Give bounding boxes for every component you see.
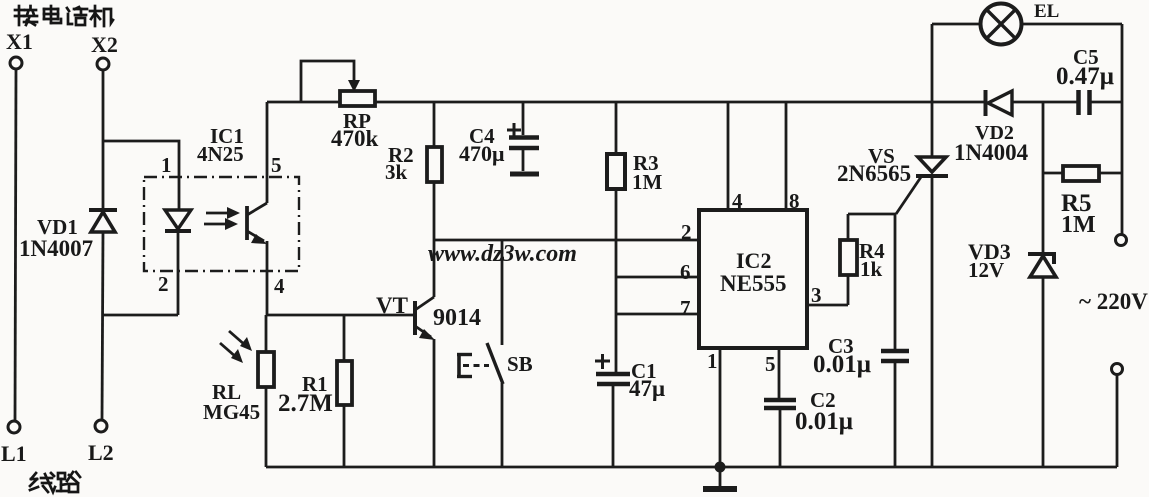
capacitor C5 0.47u xyxy=(1056,45,1122,115)
wire EL left xyxy=(932,23,980,26)
svg-text:0.47μ: 0.47μ xyxy=(1056,63,1114,90)
IC2 NE555 xyxy=(699,210,807,348)
wire pin2 junction to VD1 line xyxy=(102,314,178,317)
svg-text:IC2: IC2 xyxy=(736,248,771,273)
zener diode VD3 12V xyxy=(968,239,1056,467)
svg-text:3k: 3k xyxy=(385,160,408,184)
capacitor C1 47u electrolytic xyxy=(595,354,665,467)
svg-text:3: 3 xyxy=(811,283,822,307)
svg-text:1N4004: 1N4004 xyxy=(954,140,1029,165)
wire VD1 to L2 xyxy=(102,232,103,419)
phototransistor inside IC1 xyxy=(247,203,267,244)
wire IC1 pin4 node to VT base xyxy=(266,314,413,317)
svg-text:1M: 1M xyxy=(1061,212,1096,238)
svg-text:L2: L2 xyxy=(88,440,114,465)
terminal AC upper xyxy=(1116,235,1127,246)
thyristor VS 2N6565 xyxy=(837,24,948,467)
svg-text:1: 1 xyxy=(161,153,172,177)
svg-text:www.dz3w.com: www.dz3w.com xyxy=(428,241,577,267)
photoresistor RL MG45 xyxy=(203,315,274,467)
线 xyxy=(31,473,36,479)
resistor R1 2.7M xyxy=(278,315,352,467)
LED inside IC1 xyxy=(165,210,191,270)
svg-text:470k: 470k xyxy=(331,126,379,151)
svg-text:2: 2 xyxy=(158,272,169,296)
label 线路 (line) xyxy=(30,472,80,492)
terminal X1 xyxy=(6,29,33,69)
svg-text:7: 7 xyxy=(680,296,691,320)
机 xyxy=(94,6,97,26)
bottom bus wire xyxy=(266,466,1117,469)
wire X1 to L1 xyxy=(15,69,16,420)
optocoupler IC1 4N25 dash-dot box xyxy=(144,124,299,271)
svg-text:470μ: 470μ xyxy=(459,141,505,166)
capacitor C3 0.01u xyxy=(813,214,909,467)
svg-text:X2: X2 xyxy=(91,32,118,57)
接 xyxy=(18,6,21,25)
wire X2 branch to IC1 pin 1 xyxy=(103,141,179,210)
电 xyxy=(44,8,58,11)
pushbutton switch SB xyxy=(457,240,533,467)
wire EL right xyxy=(1022,23,1122,26)
svg-text:4: 4 xyxy=(732,189,743,213)
transistor VT 9014 xyxy=(376,240,481,467)
svg-text:1: 1 xyxy=(707,349,718,373)
wire IC1 pin 2 down xyxy=(158,270,178,315)
wire rail VD2 to C5 xyxy=(1012,101,1077,104)
terminal L1 xyxy=(1,421,27,466)
wire right vertical from EL to terminal xyxy=(1121,24,1124,234)
lamp EL xyxy=(981,1,1060,45)
svg-text:X1: X1 xyxy=(6,29,33,54)
svg-text:2.7M: 2.7M xyxy=(278,390,333,417)
svg-text:4: 4 xyxy=(274,274,285,298)
resistor R4 1k xyxy=(840,214,885,305)
svg-text:1M: 1M xyxy=(632,170,663,194)
svg-text:5: 5 xyxy=(271,153,282,177)
wire NE555 pin 3 xyxy=(807,283,848,307)
wire top rail left segment xyxy=(267,101,341,104)
wire NE555 pin 2 horizontal xyxy=(434,220,699,244)
svg-text:1k: 1k xyxy=(860,257,883,281)
resistor R2 3k xyxy=(385,102,442,240)
IC2 pin 8 stem xyxy=(786,102,800,213)
svg-text:1N4007: 1N4007 xyxy=(19,236,93,261)
potentiometer RP 470k xyxy=(301,61,379,151)
svg-text:NE555: NE555 xyxy=(720,271,786,296)
svg-text:4N25: 4N25 xyxy=(197,142,244,166)
wire VD3 riser xyxy=(1042,102,1045,252)
IC2 pin 5 stem xyxy=(765,348,779,398)
wire NE555 pin 7 horizontal xyxy=(616,296,699,320)
wire IC1 pin 5 riser to rail xyxy=(267,102,282,203)
wire R3 to C1 vertical xyxy=(615,189,618,372)
diode VD2 1N4004 xyxy=(954,90,1029,165)
路 xyxy=(58,473,65,479)
ground symbol xyxy=(703,462,737,490)
话 xyxy=(67,8,69,11)
optocoupler light coupling arrows xyxy=(204,207,240,230)
svg-text:2: 2 xyxy=(681,220,692,244)
svg-text:8: 8 xyxy=(789,189,800,213)
IC2 pin 1 stem xyxy=(707,348,720,467)
IC2 pin 4 stem xyxy=(728,102,743,213)
svg-text:SB: SB xyxy=(507,352,533,376)
wire NE555 pin 6 horizontal xyxy=(616,260,699,284)
wire lower terminal to bus xyxy=(1116,375,1119,467)
terminal X2 xyxy=(91,32,118,70)
diode VD1 1N4007 xyxy=(19,210,117,261)
svg-text:EL: EL xyxy=(1034,1,1059,22)
label 接电话机 (connect telephone) xyxy=(15,6,113,26)
svg-text:0.01μ: 0.01μ xyxy=(795,408,853,435)
terminal L2 xyxy=(88,420,114,465)
wire top rail main segment xyxy=(375,101,985,104)
wire IC1 pin 4 / emitter down xyxy=(267,241,285,315)
svg-text:6: 6 xyxy=(680,260,691,284)
svg-text:9014: 9014 xyxy=(433,305,481,331)
svg-text:L1: L1 xyxy=(1,441,27,466)
svg-text:MG45: MG45 xyxy=(203,400,260,424)
svg-text:~ 220V: ~ 220V xyxy=(1079,289,1148,314)
terminal AC lower xyxy=(1112,364,1123,375)
svg-text:47μ: 47μ xyxy=(629,376,665,401)
svg-text:0.01μ: 0.01μ xyxy=(813,351,871,378)
svg-text:5: 5 xyxy=(765,352,776,376)
resistor R3 1M xyxy=(607,102,663,194)
capacitor C2 0.01u xyxy=(764,388,853,467)
capacitor C4 470u electrolytic xyxy=(459,102,539,174)
resistor R5 1M xyxy=(1043,166,1122,238)
svg-text:2N6565: 2N6565 xyxy=(837,161,911,186)
svg-text:12V: 12V xyxy=(968,258,1004,282)
wire R4 to VS gate xyxy=(848,177,921,214)
wire X2 to VD1 xyxy=(102,70,105,208)
